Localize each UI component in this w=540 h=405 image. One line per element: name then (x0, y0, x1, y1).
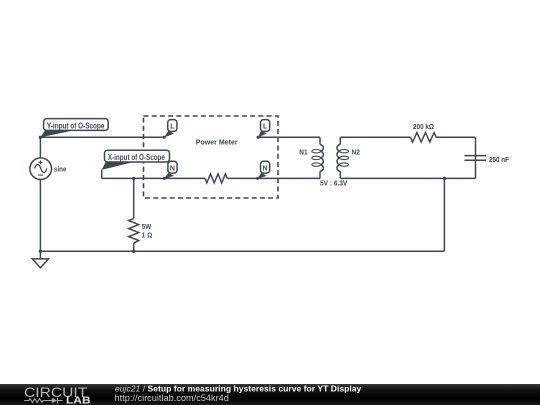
resistor R1 1 Ohm 5W (vertical) (129, 178, 153, 251)
svg-text:Power Meter: Power Meter (196, 137, 238, 146)
svg-text:250 nF: 250 nF (489, 155, 509, 164)
junction: source / Y-input node (39, 136, 42, 139)
terminal L left (163, 120, 177, 139)
wire: mid horizontal right of shunt to transformer primary (228, 177, 321, 179)
transformer T1 primary coil N1 (299, 137, 323, 178)
svg-text:N1: N1 (299, 147, 307, 156)
svg-text:200 kΩ: 200 kΩ (413, 122, 434, 131)
svg-text:N2: N2 (352, 147, 360, 156)
junction: ground node (39, 250, 42, 253)
svg-text:N: N (170, 166, 175, 173)
capacitor C1 250 nF (464, 155, 509, 164)
transformer T1 secondary coil N2 (337, 137, 360, 178)
svg-text:Y-input of O-Scope: Y-input of O-Scope (47, 121, 105, 130)
wire: right vertical through capacitor (475, 137, 477, 178)
wire: 200k resistor to right edge (436, 136, 475, 138)
wire: secondary bottom rail (340, 177, 475, 179)
svg-text:L: L (263, 124, 268, 131)
svg-text:5V : 6.3V: 5V : 6.3V (320, 179, 347, 188)
junction: R1 top node (132, 177, 135, 180)
svg-text:sine: sine (54, 165, 66, 174)
logo: CIRCUIT LAB (24, 385, 91, 405)
svg-text:http://circuitlab.com/c54kr4d: http://circuitlab.com/c54kr4d (115, 393, 229, 403)
junction: secondary bottom node (443, 177, 446, 180)
wire: secondary top to 200k resistor (340, 136, 410, 138)
junction: R1 bottom node (132, 250, 135, 253)
wire: vertical drop from secondary bottom to ground rail (443, 178, 445, 251)
svg-text:1 Ω: 1 Ω (142, 230, 153, 239)
svg-text:L: L (170, 124, 175, 131)
svg-text:eujc21 / Setup for measuring h: eujc21 / Setup for measuring hysteresis … (115, 383, 362, 393)
power meter dashed box (144, 116, 279, 198)
svg-text:X-input of O-Scope: X-input of O-Scope (108, 153, 166, 162)
label callout: Y-input of O-Scope (40, 119, 108, 138)
svg-text:LAB: LAB (66, 396, 91, 405)
wire: mid horizontal (X-scope node) left of shunt (102, 177, 205, 179)
wire: source top vertical (39, 137, 41, 158)
svg-text:N: N (263, 166, 268, 173)
terminal L right (257, 120, 270, 139)
wire: bottom ground rail (40, 250, 444, 252)
wire: source bottom vertical to ground rail (39, 180, 41, 252)
label callout: X-input of O-Scope (102, 150, 170, 170)
ground (32, 251, 48, 268)
terminal N left (163, 161, 177, 180)
resistor 200 kOhm (horizontal) (411, 122, 437, 142)
resistor: power-meter internal shunt (horizontal) (205, 174, 227, 183)
voltage source V1 sine (30, 158, 52, 180)
wire: X-callout stub (101, 170, 103, 179)
wire: top horizontal from source to power-meter L terminal (40, 136, 164, 138)
terminal N right (256, 161, 270, 180)
wire: L-right terminal to transformer primary top (258, 136, 320, 138)
